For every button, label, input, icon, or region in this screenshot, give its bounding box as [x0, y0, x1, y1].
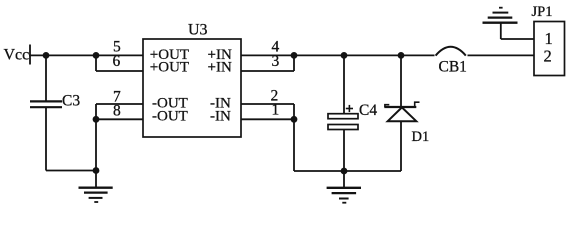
- node pin5/pin6: [93, 52, 100, 59]
- node ground left: [93, 167, 100, 174]
- node pin1: [291, 116, 298, 123]
- node D1/rail: [398, 52, 405, 59]
- svg-text:C4: C4: [359, 102, 377, 119]
- wire pin3 up to pin4 rail: [293, 55, 295, 71]
- svg-text:3: 3: [272, 53, 280, 70]
- D1 right zener hook: [415, 102, 420, 107]
- capacitor C3 plates: [30, 101, 62, 107]
- wire Vcc to U3 pin 5: [29, 54, 143, 56]
- ferrite bead CB1 arc: [436, 47, 466, 56]
- wire C3 to ground node: [46, 170, 96, 172]
- wire C4 bottom lead: [343, 130, 345, 172]
- svg-text:+OUT: +OUT: [150, 59, 189, 75]
- wire pin2 node down to bottom rail: [293, 104, 295, 171]
- wire U3 pin 8: [96, 118, 143, 120]
- svg-text:D1: D1: [412, 129, 430, 145]
- wire pin1 stub into vertical: [241, 118, 294, 120]
- ground (bottom left): [79, 188, 113, 202]
- capacitor C4 plates (polarized boxes): [328, 114, 358, 130]
- C4 plus polarity mark: [346, 105, 353, 112]
- svg-text:CB1: CB1: [439, 59, 467, 76]
- wire U3 pin 3: [241, 70, 294, 72]
- svg-text:-OUT: -OUT: [152, 108, 188, 124]
- ground (bottom right): [327, 188, 361, 203]
- node C4/rail: [341, 52, 348, 59]
- node pin4/pin3: [291, 52, 298, 59]
- Vcc terminal tick: [29, 45, 31, 65]
- wire bottom rail to D1: [294, 170, 401, 172]
- wire U3 pin 7: [96, 103, 143, 105]
- wire C3 top lead: [45, 55, 47, 100]
- wire right ground stem: [343, 171, 345, 188]
- svg-text:JP1: JP1: [532, 4, 553, 20]
- wire U3 pin 4 rail to CB1: [241, 54, 435, 56]
- zener diode D1: [384, 102, 419, 121]
- wire D1 bottom lead: [400, 121, 402, 171]
- svg-text:6: 6: [113, 53, 121, 70]
- wire D1 top lead: [400, 55, 402, 107]
- svg-text:1: 1: [545, 29, 553, 48]
- svg-text:C3: C3: [62, 93, 80, 110]
- wire pin5 node down to pin 6: [95, 55, 97, 71]
- D1 left zener hook: [385, 105, 389, 107]
- D1 cathode bar: [384, 106, 416, 108]
- ground (top, flipped): [483, 8, 518, 23]
- svg-text:+IN: +IN: [208, 59, 232, 75]
- svg-text:Vcc: Vcc: [4, 47, 30, 64]
- svg-text:-IN: -IN: [210, 108, 231, 124]
- connector JP1 box: [534, 22, 565, 76]
- svg-text:8: 8: [113, 103, 121, 120]
- svg-text:1: 1: [272, 101, 280, 118]
- wire top ground stem: [500, 23, 502, 39]
- svg-text:2: 2: [544, 46, 552, 65]
- wire CB1 to JP1 pin 2: [468, 54, 535, 56]
- wire U3 pin 2: [241, 103, 294, 105]
- IC U3 box: [143, 39, 241, 137]
- svg-text:U3: U3: [188, 22, 208, 39]
- node C3/rail: [43, 52, 50, 59]
- node pin8: [93, 116, 100, 123]
- wire C4 top lead: [343, 55, 345, 113]
- wire pin7 node down to ground: [95, 104, 97, 188]
- node ground right: [341, 168, 348, 175]
- wire U3 pin 6: [96, 70, 143, 72]
- wire C3 bottom lead: [45, 108, 47, 171]
- wire top ground to JP1 pin 1: [501, 38, 534, 40]
- D1 anode triangle: [388, 107, 417, 121]
